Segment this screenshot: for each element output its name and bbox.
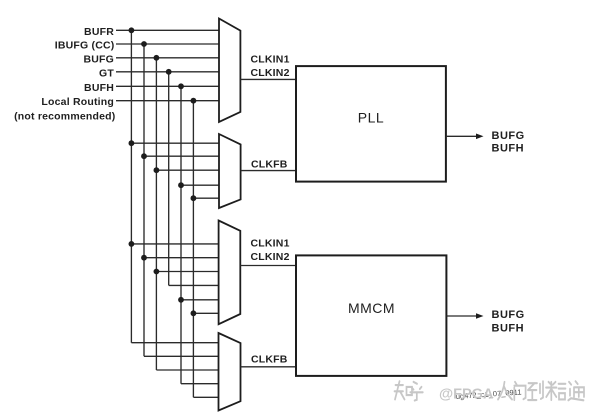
wire BUFG to mux M1 xyxy=(116,57,220,59)
svg-text:GT: GT xyxy=(99,68,114,80)
block MMCM xyxy=(296,255,446,376)
svg-text:BUFH: BUFH xyxy=(492,142,525,154)
junction dots row mux M2 xyxy=(129,140,197,201)
wire PLL output arrow xyxy=(446,135,478,137)
svg-text:(not recommended): (not recommended) xyxy=(14,110,115,122)
bus line GT vertical xyxy=(168,72,170,286)
wire BUFR to mux M1 xyxy=(116,29,220,31)
svg-text:CLKIN2: CLKIN2 xyxy=(251,251,290,263)
wire taps into mux M3 xyxy=(131,244,219,313)
block PLL xyxy=(296,66,446,182)
bus line IBUFG vertical xyxy=(143,44,145,356)
bus line Local Routing vertical xyxy=(192,101,194,398)
svg-text:MMCM: MMCM xyxy=(348,300,395,316)
glyph zhi xyxy=(395,381,405,399)
svg-text:CLKIN2: CLKIN2 xyxy=(251,67,290,79)
wire taps into mux M2 xyxy=(131,143,219,198)
svg-text:CLKFB: CLKFB xyxy=(251,159,288,171)
svg-text:IBUFG (CC): IBUFG (CC) xyxy=(55,40,115,52)
mux M3 (MMCM CLKIN select) xyxy=(219,221,241,325)
junction dots row mux M1 xyxy=(129,27,197,103)
wire mux M1 output to PLL CLKIN xyxy=(240,78,296,80)
wire MMCM output arrow xyxy=(446,315,477,317)
wire mux M2 output to PLL CLKFB xyxy=(241,170,296,172)
glyph men xyxy=(514,382,525,400)
bus line BUFH vertical xyxy=(180,86,182,383)
svg-text:PLL: PLL xyxy=(358,110,384,126)
bus line BUFR vertical xyxy=(130,30,132,342)
svg-text:BUFH: BUFH xyxy=(492,322,525,334)
mux M4 (MMCM CLKFB select) xyxy=(219,333,241,411)
wire mux M3 output to MMCM CLKIN xyxy=(240,265,296,267)
wire BUFH to mux M1 xyxy=(116,85,220,87)
svg-text:BUFG: BUFG xyxy=(492,309,525,321)
mux M2 (PLL CLKFB select) xyxy=(219,134,241,208)
junction dots row mux M3 xyxy=(129,241,197,316)
watermark zhihu @FPGA xyxy=(395,381,423,400)
svg-text:BUFR: BUFR xyxy=(84,26,114,38)
svg-text:CLKIN1: CLKIN1 xyxy=(251,53,290,65)
bus line BUFG vertical xyxy=(155,58,157,370)
wire mux M4 output to MMCM CLKFB xyxy=(241,366,297,368)
svg-text:@FPGA: @FPGA xyxy=(439,387,494,403)
glyph tong xyxy=(568,381,584,400)
svg-text:BUFH: BUFH xyxy=(84,82,114,94)
glyph ru xyxy=(498,382,512,400)
mux M1 (PLL CLKIN select) xyxy=(219,19,240,123)
svg-text:Local Routing: Local Routing xyxy=(41,96,114,108)
wire Local Routing to mux M1 xyxy=(116,100,220,102)
glyph hu xyxy=(410,382,423,401)
glyph jing xyxy=(546,382,557,400)
svg-text:CLKIN1: CLKIN1 xyxy=(251,238,290,250)
wire taps into mux M4 xyxy=(131,343,219,398)
wire GT to mux M1 xyxy=(116,71,220,73)
svg-text:CLKFB: CLKFB xyxy=(251,354,288,366)
svg-text:BUFG: BUFG xyxy=(492,130,525,142)
wire IBUFG (CC) to mux M1 xyxy=(116,43,220,45)
glyph dao xyxy=(528,381,543,400)
svg-text:BUFG: BUFG xyxy=(83,54,114,66)
